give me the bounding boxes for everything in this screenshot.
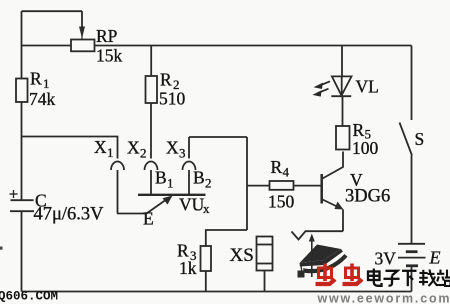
watermark chongchong char1 bbox=[316, 264, 336, 285]
label E bbox=[143, 209, 154, 229]
wire X1 to E-wire bbox=[117, 170, 119, 214]
svg-text:3: 3 bbox=[179, 146, 186, 161]
svg-text:XS: XS bbox=[230, 245, 254, 266]
wire rail2 right bbox=[95, 45, 412, 47]
scan mark left edge bbox=[0, 247, 3, 250]
wire rail3 to X1 bbox=[22, 137, 118, 159]
label X1 bbox=[94, 137, 114, 160]
connector X2 bbox=[145, 162, 158, 171]
switch S bbox=[400, 123, 413, 156]
svg-text:R: R bbox=[353, 120, 365, 140]
svg-text:74k: 74k bbox=[29, 89, 56, 109]
connector X3 bbox=[183, 162, 196, 171]
svg-text:R: R bbox=[30, 69, 42, 89]
wire RP wiper drop bbox=[79, 11, 85, 39]
label R2 bbox=[160, 70, 180, 93]
watermark chongchong char2 bbox=[343, 264, 363, 285]
wire left rail lower bbox=[21, 211, 23, 291]
wire R5 top to LED bbox=[342, 97, 344, 127]
watermark text zi bbox=[384, 271, 400, 286]
wire R2 top to rail2 bbox=[150, 46, 152, 77]
svg-text:3DG6: 3DG6 bbox=[345, 187, 390, 207]
svg-text:x: x bbox=[203, 201, 210, 216]
label RP bbox=[96, 26, 118, 46]
label VL bbox=[356, 77, 379, 97]
svg-text:X: X bbox=[94, 137, 107, 157]
transistor V collector bbox=[323, 152, 344, 179]
capacitor plus sign bbox=[10, 190, 18, 198]
svg-text:S: S bbox=[415, 129, 425, 149]
svg-text:1k: 1k bbox=[179, 258, 197, 278]
wire E horizontal bbox=[117, 213, 147, 215]
watermark text zai bbox=[419, 270, 437, 287]
label 74k bbox=[29, 89, 56, 109]
label R1 bbox=[30, 69, 50, 92]
transistor V base bar bbox=[320, 174, 323, 204]
svg-text:E: E bbox=[429, 248, 441, 268]
svg-text:2: 2 bbox=[140, 146, 147, 161]
wire X3 pin up bbox=[188, 137, 190, 159]
wire X3 node top bbox=[189, 136, 247, 138]
watermark url bbox=[317, 292, 450, 304]
svg-text:1: 1 bbox=[107, 145, 114, 160]
svg-text:VU: VU bbox=[179, 195, 205, 215]
svg-text:B: B bbox=[193, 168, 205, 188]
svg-text:E: E bbox=[143, 209, 154, 229]
wire left rail upper bbox=[21, 11, 23, 78]
wire XS to bottom rail bbox=[264, 271, 266, 292]
resistor R5 bbox=[336, 126, 350, 150]
wire emitter left with probe notch bbox=[292, 231, 344, 239]
wire right rail lower bbox=[411, 156, 413, 244]
svg-text:X: X bbox=[127, 138, 140, 158]
watermark text dian bbox=[368, 269, 382, 286]
connector XS bbox=[257, 237, 273, 271]
svg-text:www.eeworm.com: www.eeworm.com bbox=[317, 292, 450, 304]
svg-text:X: X bbox=[166, 138, 179, 158]
svg-text:RP: RP bbox=[96, 26, 118, 46]
label 510 bbox=[159, 89, 186, 109]
wire node to R4 bbox=[247, 185, 270, 187]
label 15k bbox=[96, 46, 123, 66]
wire battery to bottom rail bbox=[411, 267, 413, 292]
label B1 bbox=[155, 168, 174, 191]
svg-text:R: R bbox=[271, 157, 283, 177]
watermark Q606.COM bbox=[0, 290, 58, 304]
svg-text:4: 4 bbox=[283, 165, 290, 180]
label 3DG6 bbox=[345, 187, 390, 207]
svg-text:B: B bbox=[155, 168, 167, 188]
watermark text xia bbox=[402, 271, 417, 286]
wire node riser bbox=[246, 137, 248, 230]
svg-text:47μ/6.3V: 47μ/6.3V bbox=[34, 205, 105, 225]
wire R3 to bottom rail bbox=[205, 271, 207, 292]
label R4 bbox=[271, 157, 290, 180]
watermark text zhan bbox=[436, 270, 450, 286]
battery E plates bbox=[398, 244, 426, 266]
wire rail2 left bbox=[22, 45, 72, 47]
label V bbox=[350, 170, 363, 190]
wire LED to rail2 bbox=[341, 46, 343, 77]
UJT emitter arrow E bbox=[147, 196, 173, 214]
watermark logo graduation cap bbox=[298, 245, 348, 278]
LED light arrows bbox=[312, 81, 330, 96]
watermark logo arrow bbox=[309, 234, 315, 278]
capacitor C bbox=[10, 200, 34, 211]
wire left rail middle bbox=[21, 102, 23, 200]
svg-text:2: 2 bbox=[205, 176, 212, 191]
svg-text:Q606.COM: Q606.COM bbox=[0, 290, 58, 304]
svg-text:100: 100 bbox=[352, 138, 379, 158]
label S bbox=[415, 129, 425, 149]
label XS bbox=[230, 245, 254, 266]
label 3V bbox=[375, 248, 397, 268]
resistor R3 bbox=[201, 246, 212, 271]
wire X2 pin to R2 bbox=[150, 103, 152, 159]
UJT VUx base bar bbox=[138, 194, 206, 196]
svg-text:1: 1 bbox=[167, 176, 174, 191]
wire top rail bbox=[22, 10, 83, 12]
wire node to R3 bbox=[206, 230, 247, 246]
label B2 bbox=[193, 168, 212, 191]
wire right rail upper bbox=[411, 46, 413, 121]
resistor R1 bbox=[16, 79, 28, 103]
potentiometer RP bbox=[71, 40, 95, 52]
svg-text:VL: VL bbox=[356, 77, 379, 97]
resistor R2 bbox=[146, 76, 158, 103]
svg-text:15k: 15k bbox=[96, 46, 123, 66]
label R5 bbox=[353, 120, 372, 142]
transistor V emitter bbox=[323, 200, 344, 210]
label X2 bbox=[127, 138, 147, 161]
connector X1 bbox=[111, 162, 124, 171]
wire emitter down bbox=[342, 210, 344, 232]
wire R4 to base bbox=[294, 185, 321, 187]
svg-text:3V: 3V bbox=[375, 248, 397, 268]
label X3 bbox=[166, 138, 186, 161]
label 1k bbox=[179, 258, 197, 278]
svg-text:150: 150 bbox=[268, 192, 295, 212]
label 47u/6.3V bbox=[34, 205, 105, 225]
label E battery bbox=[429, 248, 441, 268]
label 100 bbox=[352, 138, 379, 158]
label VUx bbox=[179, 195, 210, 217]
wire bottom rail bbox=[22, 291, 412, 293]
svg-text:R: R bbox=[160, 70, 172, 90]
svg-text:510: 510 bbox=[159, 89, 186, 109]
wire B1 lead bbox=[150, 170, 152, 195]
label 150 bbox=[268, 192, 295, 212]
label C bbox=[35, 191, 47, 211]
label R3 bbox=[177, 241, 197, 264]
wire B2 lead bbox=[188, 170, 190, 195]
LED VL bbox=[331, 76, 351, 96]
resistor R4 bbox=[270, 181, 294, 190]
